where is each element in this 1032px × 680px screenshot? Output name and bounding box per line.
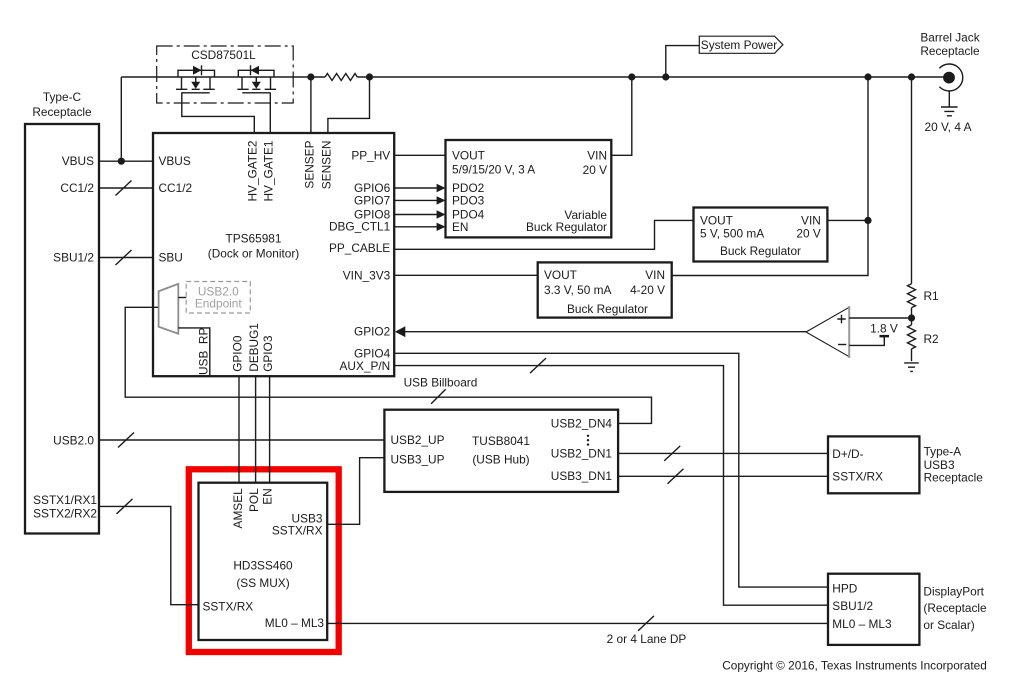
svg-text:VOUT: VOUT <box>700 213 733 227</box>
comparator minus sign <box>838 344 846 346</box>
svg-text:Receptacle: Receptacle <box>924 470 984 484</box>
svg-text:20 V: 20 V <box>583 163 607 177</box>
wire: main power rail <box>121 76 944 78</box>
wire: 5V buck VOUT to TPS PP_CABLE <box>394 220 693 249</box>
resistor R1 <box>908 284 916 308</box>
wire: VBUS drop from rail to Type-C VBUS <box>120 77 122 161</box>
svg-text:SENSEP: SENSEP <box>302 140 316 188</box>
5V buck regulator box <box>694 208 828 262</box>
svg-text:USB2_DN1: USB2_DN1 <box>551 446 613 460</box>
wire: DBG_CTL1 to EN with arrow <box>394 226 438 228</box>
wire: TPS AUX_P/N to DisplayPort SBU1/2 <box>394 366 828 606</box>
transistor Q1 source arrow <box>191 82 200 89</box>
variable buck labels <box>452 148 607 234</box>
DisplayPort box <box>828 574 919 645</box>
svg-text:GPIO0: GPIO0 <box>231 335 245 372</box>
hub ellipsis dots <box>587 435 589 446</box>
svg-text:TUSB8041: TUSB8041 <box>472 434 530 448</box>
svg-text:SSTX2/RX2: SSTX2/RX2 <box>33 506 97 520</box>
wire: hub USB3_DN1 to Type-A SSTX/RX <box>618 475 828 477</box>
CSD87501L dash-dot box <box>157 46 294 103</box>
wire: SENSEP drop <box>310 77 312 133</box>
svg-text:PP_CABLE: PP_CABLE <box>329 241 390 255</box>
svg-text:DBG_CTL1: DBG_CTL1 <box>329 219 391 233</box>
Type-A receptacle labels <box>832 445 983 485</box>
svg-text:Type-A: Type-A <box>924 445 962 459</box>
svg-text:Type-C: Type-C <box>43 90 82 104</box>
sense resistor (zigzag) <box>325 74 357 81</box>
svg-text:Buck Regulator: Buck Regulator <box>720 244 801 258</box>
svg-text:VIN_3V3: VIN_3V3 <box>343 269 391 283</box>
wire: Type-C USB2.0 to hub USB2_UP <box>99 439 384 441</box>
svg-text:VBUS: VBUS <box>62 154 94 168</box>
R1 R2 1.8V labels <box>870 289 939 346</box>
wire: DEBUG1/POL <box>255 376 257 483</box>
comparator U2 <box>806 307 849 356</box>
Type-C receptacle box <box>25 124 99 534</box>
svg-text:5/9/15/20 V, 3 A: 5/9/15/20 V, 3 A <box>452 163 535 177</box>
bus slash on USB3_DN1 <box>668 469 684 484</box>
HD3SS460 labels <box>203 512 325 631</box>
svg-text:HD3SS460: HD3SS460 <box>233 558 293 572</box>
svg-text:POL: POL <box>247 488 261 512</box>
resistor R2 <box>908 325 916 349</box>
rotated pin labels TPS bottom <box>197 323 275 375</box>
wire: SENSEN drop <box>328 77 370 133</box>
wire: mux to USB_RP pin <box>178 328 210 376</box>
svg-text:(SS MUX): (SS MUX) <box>236 576 289 590</box>
bus slash on SSTX <box>117 499 133 514</box>
svg-text:DEBUG1: DEBUG1 <box>247 323 261 372</box>
svg-text:VOUT: VOUT <box>544 268 577 282</box>
barrel jack receptacle J1 <box>939 64 962 91</box>
barrel jack labels <box>920 30 980 134</box>
svg-text:SBU1/2: SBU1/2 <box>53 251 94 265</box>
svg-text:Barrel Jack: Barrel Jack <box>920 30 979 44</box>
svg-text:VIN: VIN <box>645 268 665 282</box>
svg-text:SENSEN: SENSEN <box>319 141 333 190</box>
svg-text:GPIO3: GPIO3 <box>261 335 275 372</box>
wire: GPIO8 to PDO4 with arrow <box>394 214 438 216</box>
svg-text:1.8 V: 1.8 V <box>870 321 898 335</box>
node: rail-resistor left junction <box>307 73 314 80</box>
HD3SS460 SS MUX box <box>199 483 328 640</box>
svg-text:GPIO2: GPIO2 <box>354 325 390 339</box>
svg-text:PP_HV: PP_HV <box>351 148 390 162</box>
wire: GPIO0/AMSEL <box>238 376 240 483</box>
red highlight box around HD3SS460 <box>189 469 339 652</box>
wire: Q1 gate to HV_GATE2 pin <box>182 93 255 133</box>
svg-text:CSD87501L: CSD87501L <box>191 48 256 62</box>
svg-text:ML0 – ML3: ML0 – ML3 <box>832 617 892 631</box>
wire: Type-C VBUS to TPS VBUS <box>99 160 153 162</box>
wire: Type-C SBU1/2 to TPS SBU <box>99 257 153 259</box>
svg-text:ML0 – ML3: ML0 – ML3 <box>265 616 325 630</box>
wire: Q2 gate to HV_GATE1 pin <box>269 93 271 133</box>
wire: 5V buck VIN to vertical branch <box>827 219 868 221</box>
DisplayPort labels <box>832 581 987 632</box>
svg-text:USB3_DN1: USB3_DN1 <box>551 469 613 483</box>
svg-text:USB3_UP: USB3_UP <box>391 452 445 466</box>
wire: Type-C CC1/2 to TPS CC1/2 <box>99 187 153 189</box>
bus slash on CC1/2 <box>116 181 132 196</box>
svg-text:USB_RP: USB_RP <box>197 328 211 375</box>
wire: comparator + input to divider <box>849 317 908 319</box>
svg-text:20 V, 4 A: 20 V, 4 A <box>925 120 972 134</box>
wire: TPS GPIO4 to DisplayPort HPD <box>394 353 828 587</box>
system power flag <box>699 36 783 53</box>
TUSB8041 USB hub box <box>384 410 618 492</box>
wire: R-divider branch from rail <box>911 77 913 361</box>
svg-text:R1: R1 <box>924 289 940 303</box>
transistor Q1 channel and gate <box>176 77 215 93</box>
svg-text:AUX_P/N: AUX_P/N <box>340 359 391 373</box>
svg-text:SBU1/2: SBU1/2 <box>832 599 873 613</box>
svg-text:EN: EN <box>452 220 468 234</box>
transistor Q2 channel and gate <box>237 77 276 93</box>
svg-text:SSTX1/RX1: SSTX1/RX1 <box>33 493 97 507</box>
bus slash on AUX wire <box>530 358 546 373</box>
wire: HD3SS460 ML0-ML3 to DisplayPort <box>327 622 828 624</box>
svg-text:VIN: VIN <box>801 213 821 227</box>
wire: GPIO3/EN <box>269 376 271 483</box>
transistor Q2 (right FET of CSD87501L) body diode loop <box>238 70 274 77</box>
gray endpoint text <box>195 284 242 310</box>
svg-text:(Receptacle: (Receptacle <box>923 601 987 615</box>
wire: comparator - input to 1.8V reference <box>849 337 884 345</box>
wire: branch x868 from rail to 3.3V VIN <box>672 77 868 276</box>
wire: TPS PP_HV to variable buck VOUT <box>394 154 445 156</box>
wire: GPIO6 to PDO2 with arrow <box>394 187 438 189</box>
wire: comparator output to TPS GPIO2 with arrow <box>404 331 806 333</box>
bus slash on ML wire <box>638 616 654 631</box>
svg-text:Receptacle: Receptacle <box>920 44 980 58</box>
svg-text:20 V: 20 V <box>796 226 820 240</box>
bus slash on SBU <box>116 250 132 265</box>
TPS65981 pin and name labels <box>159 148 391 372</box>
svg-text:HV_GATE2: HV_GATE2 <box>246 141 260 202</box>
svg-text:SSTX/RX: SSTX/RX <box>832 470 883 484</box>
node: dot at rail x868 <box>864 73 871 80</box>
transistor Q2 source arrow <box>252 82 261 89</box>
USB2.0 endpoint mux trapezoid (gray) <box>159 284 179 334</box>
svg-text:R2: R2 <box>924 332 939 346</box>
5V buck labels <box>700 213 821 258</box>
barrel jack ground <box>941 91 958 116</box>
bus slash on USB2_DN1 <box>664 446 680 461</box>
wire: mux to endpoint box <box>178 297 186 299</box>
wire: USB billboard route (mux out, down, right to hub USB2_DN4) <box>125 307 651 423</box>
node: rail-resistor right junction <box>366 73 373 80</box>
bus slash on billboard wire <box>431 389 446 404</box>
3.3V buck regulator box <box>538 262 672 317</box>
wire: HD3SS460 USB3 SSTX/RX to hub USB3_UP <box>327 458 384 525</box>
wire: TPS VIN_3V3 to 3.3V buck VOUT <box>394 274 538 276</box>
svg-text:EN: EN <box>260 488 274 504</box>
svg-text:TPS65981: TPS65981 <box>226 232 282 246</box>
USB2.0 endpoint dashed box (gray) <box>186 282 250 314</box>
1.8V reference bar <box>880 335 890 338</box>
TPS65981 box U1 <box>153 133 394 376</box>
svg-text:DisplayPort: DisplayPort <box>923 585 984 599</box>
svg-text:Buck Regulator: Buck Regulator <box>567 302 648 316</box>
svg-text:2 or 4 Lane DP: 2 or 4 Lane DP <box>607 632 687 646</box>
node: dot at 5V VIN junction <box>864 217 871 224</box>
wire: hub USB2_DN1 to Type-A D+/D- <box>618 452 828 454</box>
rotated pin labels TPS top <box>246 140 334 201</box>
svg-text:Copyright © 2016, Texas Instru: Copyright © 2016, Texas Instruments Inco… <box>722 659 987 673</box>
svg-text:USB2_DN4: USB2_DN4 <box>551 416 613 430</box>
svg-text:3.3 V, 50 mA: 3.3 V, 50 mA <box>544 283 611 297</box>
svg-text:GPIO7: GPIO7 <box>354 193 390 207</box>
wire: system power tap <box>666 46 700 77</box>
svg-text:System Power: System Power <box>701 38 777 52</box>
svg-text:(USB Hub): (USB Hub) <box>472 452 529 466</box>
svg-text:5 V, 500 mA: 5 V, 500 mA <box>700 226 764 240</box>
svg-text:VIN: VIN <box>587 148 607 162</box>
svg-text:SBU: SBU <box>159 251 183 265</box>
comparator plus sign <box>837 315 845 323</box>
wire: GPIO7 to PDO3 with arrow <box>394 199 438 201</box>
svg-text:Receptacle: Receptacle <box>32 105 92 119</box>
Type-A USB3 receptacle box <box>828 436 919 493</box>
transistor Q1 body diode symbol <box>193 66 202 75</box>
transistor Q2 body diode symbol <box>251 66 260 75</box>
ground below R2 <box>904 363 919 372</box>
svg-text:or Scalar): or Scalar) <box>923 618 974 632</box>
svg-text:SSTX/RX: SSTX/RX <box>272 523 323 537</box>
svg-text:USB2_UP: USB2_UP <box>391 433 445 447</box>
svg-text:Buck Regulator: Buck Regulator <box>526 220 607 234</box>
rotated pin labels HD3SS460 top <box>231 488 274 529</box>
svg-text:D+/D-: D+/D- <box>832 447 863 461</box>
svg-text:PDO3: PDO3 <box>452 193 485 207</box>
node: divider midpoint dot <box>908 314 915 321</box>
svg-text:VBUS: VBUS <box>159 154 191 168</box>
variable buck regulator box <box>446 140 612 237</box>
svg-text:VOUT: VOUT <box>452 148 485 162</box>
svg-text:CC1/2: CC1/2 <box>60 181 94 195</box>
svg-text:HPD: HPD <box>832 581 857 595</box>
svg-text:Endpoint: Endpoint <box>195 296 242 310</box>
wire: Type-C SSTX/RX to HD3SS460 SSTX/RX <box>99 506 199 604</box>
node: dot at rail for system power <box>662 73 669 80</box>
svg-text:SSTX/RX: SSTX/RX <box>203 600 254 614</box>
svg-text:(Dock or Monitor): (Dock or Monitor) <box>208 247 300 261</box>
node: dot at rail x911 <box>908 73 915 80</box>
bus slash on USB2.0 <box>118 433 134 448</box>
node: dot at rail for variable buck <box>628 73 635 80</box>
svg-text:AMSEL: AMSEL <box>231 488 245 529</box>
3.3V buck labels <box>544 268 665 316</box>
svg-text:4-20 V: 4-20 V <box>630 283 665 297</box>
svg-text:USB2.0: USB2.0 <box>53 434 94 448</box>
Type-C receptacle labels and pins <box>32 90 97 520</box>
svg-text:USB Billboard: USB Billboard <box>404 376 478 390</box>
transistor Q1 (left FET of CSD87501L) body diode loop <box>178 70 215 77</box>
node: VBUS junction dot <box>118 158 125 165</box>
svg-text:CC1/2: CC1/2 <box>159 181 193 195</box>
svg-text:HV_GATE1: HV_GATE1 <box>262 140 276 201</box>
TUSB8041 hub labels <box>391 416 613 483</box>
wire: variable buck VIN up to rail <box>611 77 632 155</box>
